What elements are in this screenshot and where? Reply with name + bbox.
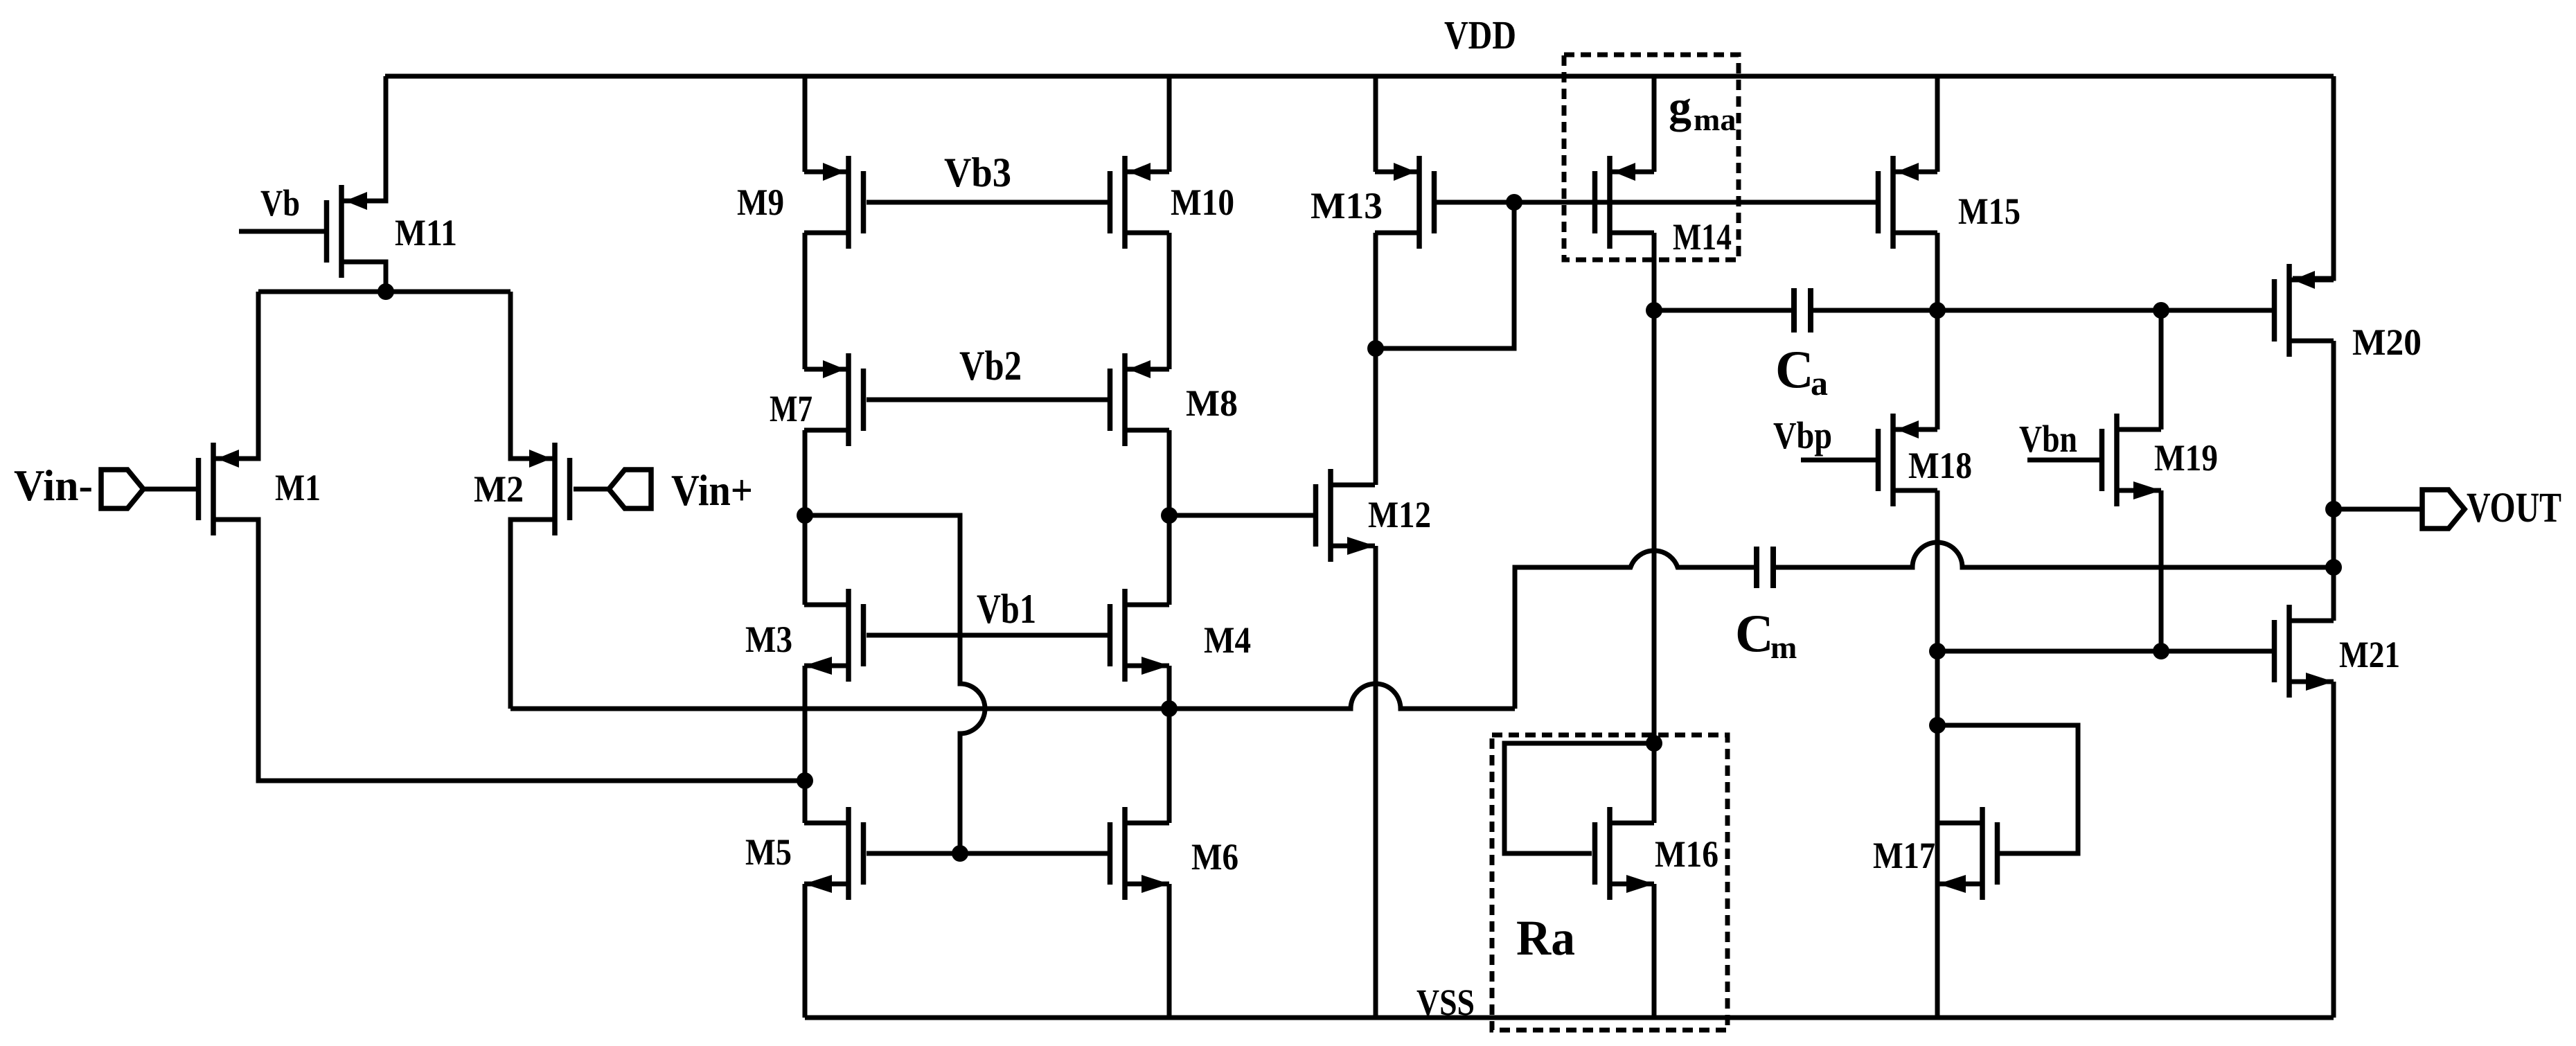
wire M15 drain to M18 source	[1935, 310, 1940, 429]
node M1-drain M5 dot	[797, 772, 813, 789]
transistor M14	[1595, 156, 1655, 249]
wire VDD to M14 source	[1652, 76, 1657, 172]
gma dashed box	[1564, 55, 1739, 260]
wire Vb3 gate row	[867, 200, 1110, 205]
wire M7 drain to node A	[803, 430, 808, 515]
wire Vb gate stub	[239, 229, 327, 234]
node M13 gate dot	[1506, 194, 1522, 211]
transistor M8	[1110, 353, 1170, 446]
wire M19 source down	[2159, 490, 2164, 651]
wire M5 drain	[803, 781, 808, 823]
wire M11 source to tail node	[344, 262, 386, 292]
svg-text:C: C	[1735, 603, 1774, 663]
wire VDD to M13 source	[1374, 76, 1378, 172]
wire VDD to M15 source	[1935, 76, 1940, 172]
node Ca left dot	[1646, 302, 1662, 319]
svg-text:M4: M4	[1204, 619, 1251, 661]
transistor M13	[1375, 156, 1434, 249]
svg-text:M7: M7	[770, 388, 812, 429]
node M19 drain dot	[2153, 302, 2169, 319]
wire VSS rail	[805, 1016, 2334, 1020]
svg-text:M18: M18	[1908, 445, 1972, 486]
wire Ca left	[1654, 308, 1791, 313]
transistor M11	[327, 185, 387, 278]
svg-text:VSS: VSS	[1416, 982, 1475, 1023]
wire M11 drain to VDD	[344, 76, 386, 201]
wire node A to M3 drain	[803, 515, 808, 605]
svg-text:g: g	[1669, 82, 1691, 132]
wire M16 drain	[1652, 743, 1657, 823]
wire M8 drain to node B	[1167, 430, 1172, 605]
wire M19 drain up to Ca node	[2159, 310, 2164, 429]
wire tail rail	[258, 290, 510, 294]
wire Vb1 gate row	[867, 633, 1110, 638]
node M21 gate wire dot	[1929, 643, 1946, 659]
wire M16 diode loop	[1504, 743, 1654, 853]
svg-text:Vin-: Vin-	[14, 461, 93, 510]
wire M6 source to VSS	[1167, 884, 1172, 1018]
svg-text:M16: M16	[1655, 833, 1718, 875]
wire Vin- to M1 gate	[143, 487, 201, 492]
transistor M4	[1110, 589, 1170, 682]
transistor M17	[1938, 807, 1998, 900]
svg-text:M1: M1	[275, 467, 321, 508]
wire M14 drain down to Ra	[1652, 233, 1657, 743]
Vin- port	[101, 470, 143, 508]
svg-text:M21: M21	[2339, 634, 2400, 675]
wire Vb2 gate row	[867, 398, 1110, 402]
node M17 gate dot	[1929, 717, 1946, 734]
transistor M16	[1595, 807, 1655, 900]
node M13 gate-source dot	[1367, 340, 1384, 357]
Ra dashed box	[1492, 735, 1727, 1030]
wire tail to M1 source	[216, 292, 258, 459]
wire gate row M13 M14 M15	[1437, 200, 1878, 205]
node VOUT dot	[2325, 501, 2342, 517]
svg-text:M13: M13	[1311, 185, 1383, 227]
svg-text:Vb: Vb	[260, 182, 300, 224]
wire VDD to M20 source	[2293, 76, 2334, 278]
svg-text:M14: M14	[1673, 216, 1732, 258]
wire M12 source to VSS	[1374, 546, 1378, 1018]
wire Cm right to VOUT with hop over M18 column	[1776, 542, 2334, 567]
wire M15 drain to Ca node	[1935, 233, 1940, 310]
wire M2 drain down to tail rail	[510, 520, 552, 709]
capacitor Ca	[1794, 288, 1811, 333]
transistor M12	[1316, 469, 1376, 562]
transistor M15	[1878, 156, 1938, 249]
transistor M6	[1110, 807, 1170, 900]
wire VDD to M9 source	[803, 76, 808, 172]
wire M4 source down to rail	[1167, 666, 1172, 823]
VOUT port	[2422, 490, 2464, 529]
wire Cm left from bottom rail	[1515, 551, 1754, 709]
svg-text:M17: M17	[1873, 835, 1935, 876]
svg-text:m: m	[1770, 630, 1797, 665]
node B dot M8-M4	[1161, 507, 1178, 524]
transistor M3	[804, 589, 864, 682]
svg-text:M5: M5	[745, 831, 792, 873]
svg-text:M20: M20	[2352, 321, 2422, 363]
wire M17 drain	[1935, 725, 1940, 823]
wire M18 drain down to VSS	[1935, 490, 1940, 1018]
transistor M18	[1878, 414, 1938, 506]
svg-text:M2: M2	[474, 468, 524, 510]
svg-text:M12: M12	[1368, 494, 1431, 535]
svg-text:M11: M11	[395, 212, 457, 254]
node Ca right dot	[1929, 302, 1946, 319]
node A dot M7-M3	[797, 507, 813, 524]
svg-text:M3: M3	[745, 619, 792, 660]
wire M13 source M12 drain column	[1374, 233, 1378, 485]
svg-text:Vb2: Vb2	[959, 343, 1022, 389]
transistor M20	[2275, 264, 2334, 357]
svg-text:M10: M10	[1171, 181, 1234, 223]
svg-text:Vin+: Vin+	[671, 466, 753, 515]
svg-text:Vbn: Vbn	[2019, 418, 2077, 460]
wire M5 source to VSS	[803, 884, 808, 1018]
transistor M9	[804, 156, 864, 249]
wire VDD to M10 source	[1167, 76, 1172, 172]
svg-text:M19: M19	[2154, 437, 2218, 479]
wire Vbn gate stub	[2027, 458, 2102, 463]
wire M10 drain to M8 source	[1167, 233, 1172, 369]
svg-text:Vbp: Vbp	[1773, 414, 1832, 456]
wire bottom rail with hop	[510, 684, 1515, 709]
svg-text:ma: ma	[1694, 102, 1736, 137]
node Cm VOUT dot	[2325, 559, 2342, 576]
transistor M10	[1110, 156, 1170, 249]
wire M5 M6 mirror gate row	[867, 851, 1110, 856]
transistor M2	[510, 443, 570, 535]
node tail dot	[377, 283, 394, 300]
node M4 source dot	[1161, 700, 1178, 717]
wire M17 source to VSS	[1935, 884, 1940, 1018]
svg-text:VDD: VDD	[1444, 12, 1516, 57]
wire M2 gate to Vin+	[574, 487, 609, 492]
transistor M7	[804, 353, 864, 446]
Vin+ port	[609, 470, 651, 508]
svg-text:M15: M15	[1958, 190, 2020, 232]
svg-text:a: a	[1811, 364, 1828, 402]
wire M16 source to VSS	[1652, 884, 1657, 1018]
svg-text:VOUT: VOUT	[2467, 485, 2561, 531]
wire M1 drain down	[216, 520, 805, 781]
wire M21 source to VSS	[2331, 682, 2336, 1018]
svg-text:Vb3: Vb3	[944, 150, 1011, 195]
node M19 source dot	[2153, 643, 2169, 659]
svg-text:C: C	[1775, 339, 1814, 399]
wire M13 diode loop	[1376, 202, 1514, 348]
wire M20 drain to VOUT node	[2331, 341, 2336, 621]
wire M17 gate loop	[1937, 725, 2078, 853]
wire M9 drain to M7 source	[803, 233, 808, 369]
svg-text:M8: M8	[1186, 382, 1238, 424]
transistor M1	[199, 443, 258, 535]
svg-text:M9: M9	[737, 181, 784, 223]
wire node A right and down with hop	[805, 515, 985, 853]
wire Vbp gate stub	[1801, 458, 1878, 463]
svg-text:Ra: Ra	[1516, 910, 1575, 966]
node mirror gate dot	[952, 845, 968, 862]
wire VDD rail	[385, 74, 2334, 79]
wire Ca right to M20 gate	[1813, 308, 2274, 313]
wire tail to M2 source	[510, 292, 552, 459]
capacitor Cm	[1757, 547, 1773, 588]
svg-text:Vb1: Vb1	[977, 586, 1036, 632]
node M16 drain dot	[1646, 735, 1662, 752]
wire M21 gate row	[1937, 649, 2274, 654]
wire node B to M12 gate	[1169, 513, 1316, 518]
wire VOUT stub	[2334, 507, 2422, 512]
svg-text:M6: M6	[1191, 836, 1238, 878]
wire M3 source to M5 node	[803, 666, 808, 781]
transistor M5	[804, 807, 864, 900]
transistor M19	[2102, 414, 2162, 506]
transistor M21	[2275, 605, 2334, 698]
